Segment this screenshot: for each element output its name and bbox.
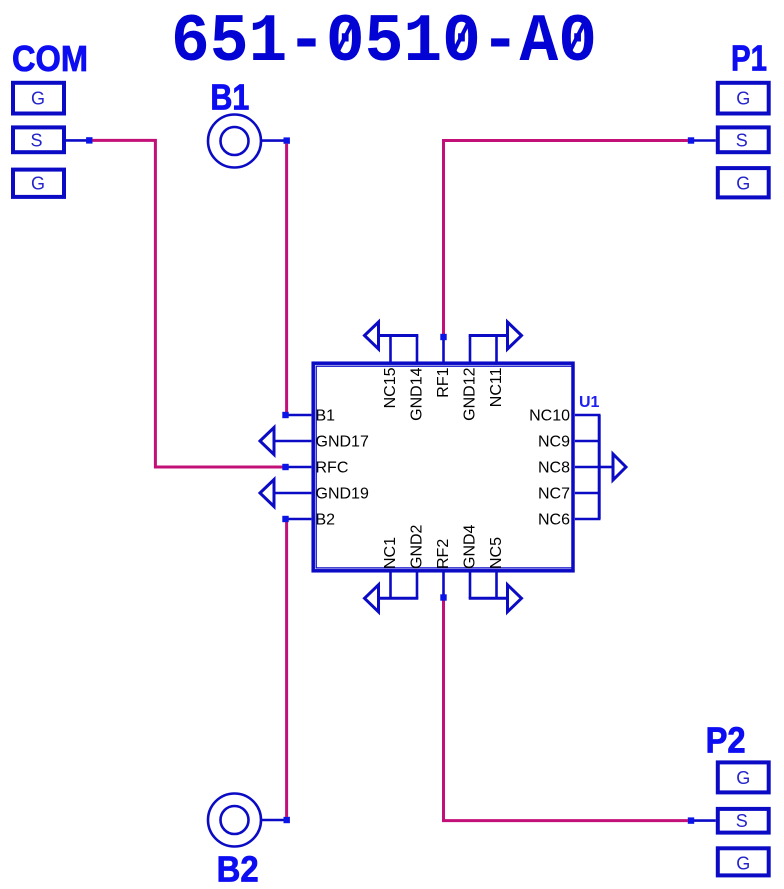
test point B1 designator <box>210 77 249 118</box>
svg-text:G: G <box>736 89 750 109</box>
top-right bracket wire <box>469 334 508 337</box>
svg-text:G: G <box>736 768 750 788</box>
svg-text:NC5: NC5 <box>488 537 505 569</box>
pin NC1 <box>382 537 399 598</box>
svg-text:NC15: NC15 <box>382 367 399 408</box>
svg-text:B1: B1 <box>210 77 249 118</box>
P1 pad S <box>718 127 769 152</box>
connector COM label <box>12 38 88 79</box>
hierarchical arrow bottom-left <box>365 585 379 612</box>
junction square at U1 pin RF1 <box>440 334 446 340</box>
junction square at U1 pin RFC <box>282 464 288 470</box>
pin GND2 <box>409 524 426 598</box>
COM pad G (bottom) <box>13 170 64 197</box>
bottom-right bracket wire <box>469 597 508 600</box>
P2 pad G (bottom) <box>718 848 769 875</box>
pin B2 <box>289 512 336 529</box>
test point B2 designator <box>217 849 259 889</box>
svg-text:S: S <box>736 131 748 151</box>
wire COM S to RFC <box>92 140 282 467</box>
pin NC8 <box>538 460 601 477</box>
pin GND19 <box>274 486 369 503</box>
U1 refdes <box>579 394 600 411</box>
svg-text:NC9: NC9 <box>538 434 570 451</box>
junction square at U1 pin B1 <box>282 412 288 418</box>
svg-text:NC10: NC10 <box>529 408 570 425</box>
pin RFC <box>289 460 349 477</box>
svg-text:GND12: GND12 <box>462 367 479 420</box>
P1 pad G (top) <box>718 83 769 114</box>
svg-text:S: S <box>736 811 748 831</box>
title 651-0510-A0 <box>171 4 597 81</box>
svg-text:RFC: RFC <box>316 460 349 477</box>
hierarchical arrow GND17 <box>260 428 274 455</box>
wire P2 S to RF2 <box>444 601 689 821</box>
junction square at P1 S <box>688 137 694 143</box>
svg-text:651-0510-A0: 651-0510-A0 <box>171 4 597 81</box>
top-left bracket wire <box>379 334 419 337</box>
svg-text:NC1: NC1 <box>382 537 399 569</box>
wire P1 S to RF1 <box>444 141 689 335</box>
svg-text:U1: U1 <box>579 394 600 411</box>
junction square at B2 <box>284 817 290 823</box>
pin GND17 <box>274 434 369 451</box>
junction square at P2 S <box>688 817 694 823</box>
svg-text:NC6: NC6 <box>538 512 570 529</box>
svg-text:P1: P1 <box>731 38 767 79</box>
COM S pin stub <box>66 139 87 142</box>
connector P2 label <box>706 720 746 761</box>
hierarchical arrow GND19 <box>260 480 274 507</box>
svg-text:G: G <box>736 854 750 874</box>
wire B1 to U1 pin B1 <box>285 144 288 413</box>
COM pad G (top) <box>13 83 64 114</box>
right bus wire <box>598 415 601 519</box>
svg-text:G: G <box>31 89 45 109</box>
svg-text:COM: COM <box>12 38 88 79</box>
svg-text:GND19: GND19 <box>316 486 369 503</box>
svg-text:B2: B2 <box>316 512 336 529</box>
pin NC5 <box>488 537 505 598</box>
op-amp U1 body <box>313 363 573 571</box>
P1 S pin stub <box>694 139 716 142</box>
svg-text:RF1: RF1 <box>435 367 452 397</box>
hierarchical arrow bottom-right <box>508 585 522 612</box>
test point B2 <box>208 794 261 847</box>
svg-text:NC8: NC8 <box>538 460 570 477</box>
svg-text:NC11: NC11 <box>488 367 505 407</box>
svg-text:NC7: NC7 <box>538 486 570 503</box>
svg-text:G: G <box>31 174 45 194</box>
pin NC11 <box>488 336 505 408</box>
P1 pad G (bottom) <box>718 168 769 197</box>
svg-text:P2: P2 <box>706 720 746 761</box>
svg-text:GND4: GND4 <box>462 524 479 569</box>
P2 S pin stub <box>694 819 716 822</box>
junction square at U1 pin B2 <box>282 516 288 522</box>
pin RF1 <box>435 340 452 398</box>
pin RF2 <box>435 539 452 595</box>
test point B1 <box>208 115 261 168</box>
hierarchical arrow top-left <box>365 322 379 349</box>
pin NC10 <box>529 408 600 425</box>
hierarchical arrow NC8 <box>599 454 626 480</box>
pin NC9 <box>538 434 601 451</box>
pin NC6 <box>538 512 601 529</box>
svg-text:GND2: GND2 <box>409 524 426 569</box>
connector P1 label <box>731 38 767 79</box>
P2 pad S <box>718 809 769 833</box>
svg-text:GND14: GND14 <box>409 367 426 420</box>
B2 pin stub <box>261 819 284 822</box>
wire B2 to U1 pin B2 <box>285 522 288 817</box>
svg-text:GND17: GND17 <box>316 434 369 451</box>
junction square at COM S <box>86 137 92 143</box>
pin GND12 <box>462 336 479 421</box>
svg-text:B2: B2 <box>217 849 259 889</box>
junction square at U1 pin RF2 <box>440 594 446 600</box>
junction square at B1 <box>284 137 290 143</box>
pin NC15 <box>382 336 399 409</box>
P2 pad G (top) <box>718 762 769 792</box>
svg-text:RF2: RF2 <box>435 539 452 569</box>
bottom-left bracket wire <box>379 597 419 600</box>
svg-text:S: S <box>30 131 42 151</box>
pin GND4 <box>462 524 479 598</box>
B1 pin stub <box>261 139 284 142</box>
COM pad S <box>13 127 64 152</box>
pin NC7 <box>538 486 601 503</box>
svg-text:G: G <box>736 174 750 194</box>
svg-text:B1: B1 <box>316 408 336 425</box>
pin B1 <box>289 408 336 425</box>
pin GND14 <box>409 336 426 421</box>
hierarchical arrow top-right <box>508 322 522 349</box>
